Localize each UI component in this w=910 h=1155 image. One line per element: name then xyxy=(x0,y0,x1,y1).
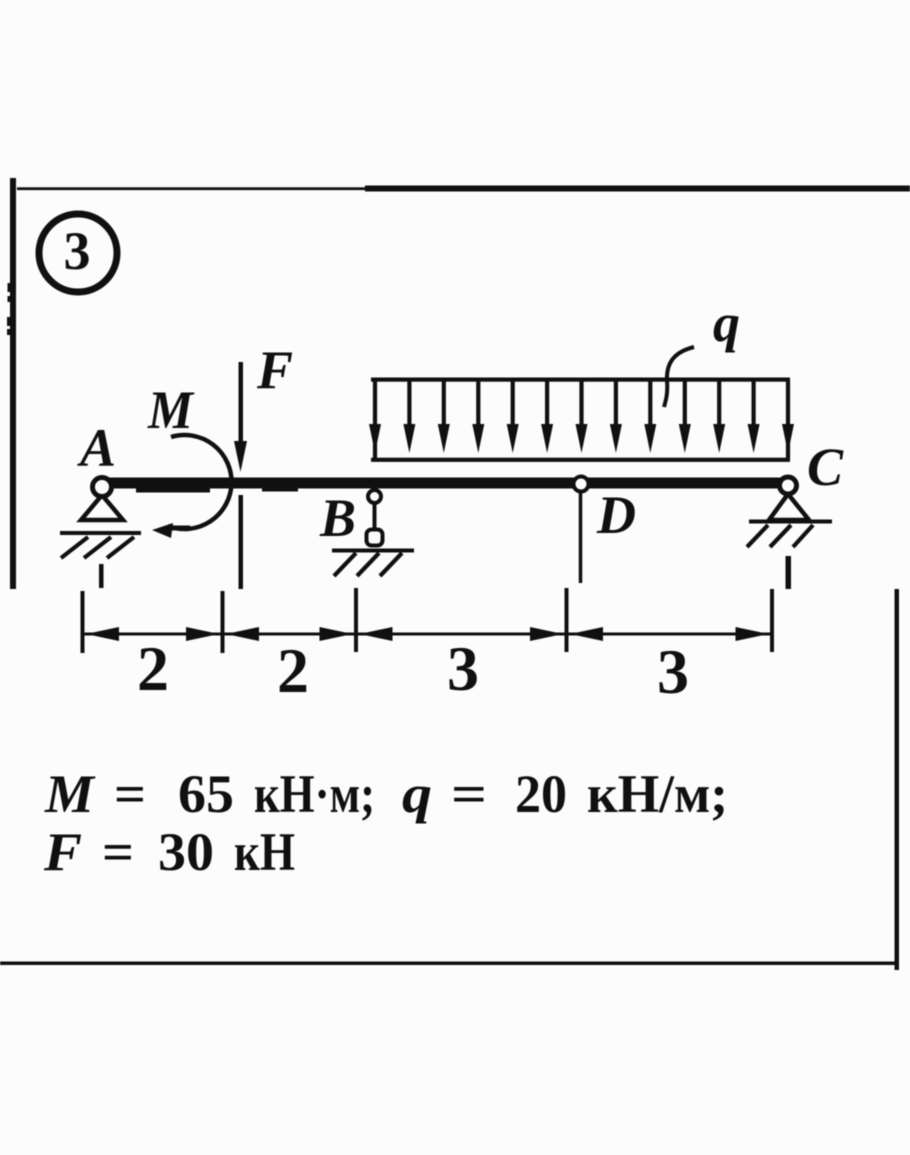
svg-text:=: = xyxy=(102,822,134,882)
svg-text:F: F xyxy=(256,340,293,400)
svg-text:F: F xyxy=(43,822,82,882)
svg-text:q: q xyxy=(402,764,432,824)
svg-text:=: = xyxy=(451,764,487,824)
svg-text:2: 2 xyxy=(137,633,169,704)
svg-text:3: 3 xyxy=(447,633,479,704)
svg-text:B: B xyxy=(319,488,356,548)
svg-text:30: 30 xyxy=(158,822,214,882)
svg-text:M: M xyxy=(44,764,96,824)
svg-text:M: M xyxy=(147,380,195,440)
svg-text:65: 65 xyxy=(178,764,234,824)
svg-text:3: 3 xyxy=(64,221,91,281)
svg-text:20: 20 xyxy=(515,764,567,824)
svg-text:3: 3 xyxy=(657,636,689,707)
svg-text:A: A xyxy=(77,418,116,478)
svg-text:=: = xyxy=(114,764,146,824)
svg-text:q: q xyxy=(713,293,740,353)
svg-text:кН·м;: кН·м; xyxy=(254,764,375,824)
svg-text:C: C xyxy=(807,437,844,497)
svg-text:кН: кН xyxy=(234,822,295,882)
svg-text:D: D xyxy=(596,485,636,545)
svg-text:2: 2 xyxy=(277,635,309,706)
svg-text:кН/м;: кН/м; xyxy=(587,764,728,824)
